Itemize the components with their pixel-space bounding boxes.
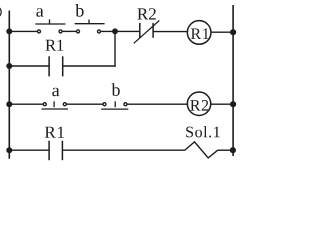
wire: pushbutton a to pushbutton b (rung 1)	[62, 30, 76, 32]
solenoid Sol.1 (zigzag)	[185, 142, 218, 158]
relay coil R2	[187, 92, 210, 115]
junction dot: rung 1 / right rail	[230, 29, 236, 35]
right power rail	[232, 5, 234, 156]
junction dot: rung 4 / right rail	[230, 147, 236, 153]
label Sol.1	[186, 126, 220, 137]
wire: coil R1 to right rail	[211, 31, 233, 33]
wire: riser from rung 2 up to rung 1 junction	[114, 31, 116, 66]
wire: left rail to contact R1 (rung 2)	[9, 65, 49, 67]
wire: pushbutton a to pushbutton b (rung 3)	[66, 103, 103, 105]
wire: pushbutton b to coil R2 (rung 3)	[127, 103, 188, 105]
wire: left rail to pushbutton a (rung 1)	[9, 30, 37, 32]
relay coil R1	[187, 21, 211, 45]
wire: coil R2 to right rail	[211, 103, 233, 105]
relay contact R2 normally-closed (rung 1)	[134, 21, 160, 44]
junction dot: rung 3 / right rail	[230, 101, 236, 107]
junction dot: rung 2 / left rail	[6, 63, 12, 69]
clipped circled figure number at left edge	[0, 6, 1, 18]
wire: left rail to pushbutton a (rung 3)	[9, 103, 43, 105]
pushbutton b NC contact (rung 3)	[101, 101, 128, 109]
label R2 (NC contact, rung 1)	[137, 8, 155, 19]
pushbutton a NO contact (rung 1)	[35, 19, 65, 33]
junction dot: rung 4 / left rail	[6, 147, 12, 153]
label R1 (self-hold contact, rung 2)	[46, 40, 64, 51]
pushbutton a NC contact (rung 3)	[42, 101, 69, 109]
wire: left rail to contact R1 (rung 4)	[9, 149, 49, 151]
label b (rung 3)	[112, 83, 120, 96]
label R1 (rung 4)	[45, 127, 64, 138]
junction dot: self-hold branch joins rung 1	[112, 28, 118, 34]
wire: contact R2 to coil R1 (rung 1)	[153, 31, 188, 33]
wire: solenoid to right rail	[218, 149, 233, 151]
relay contact R1 normally-open (rung 4)	[49, 141, 62, 161]
label a (rung 1)	[36, 8, 43, 17]
junction dot: rung 3 / left rail	[6, 101, 12, 107]
wire: pushbutton b to self-hold junction (rung 1)	[101, 30, 140, 32]
label b (rung 1)	[75, 4, 83, 17]
left power rail	[8, 11, 10, 159]
junction dot: rung 1 / left rail	[6, 28, 12, 34]
wire: contact R1 to solenoid (rung 4)	[62, 149, 185, 151]
wire: contact R1 to riser (rung 2)	[63, 65, 116, 67]
label a (rung 3)	[52, 88, 59, 97]
relay contact R1 normally-open (rung 2, self-hold)	[49, 56, 63, 76]
pushbutton b NO contact (rung 1)	[75, 20, 105, 33]
